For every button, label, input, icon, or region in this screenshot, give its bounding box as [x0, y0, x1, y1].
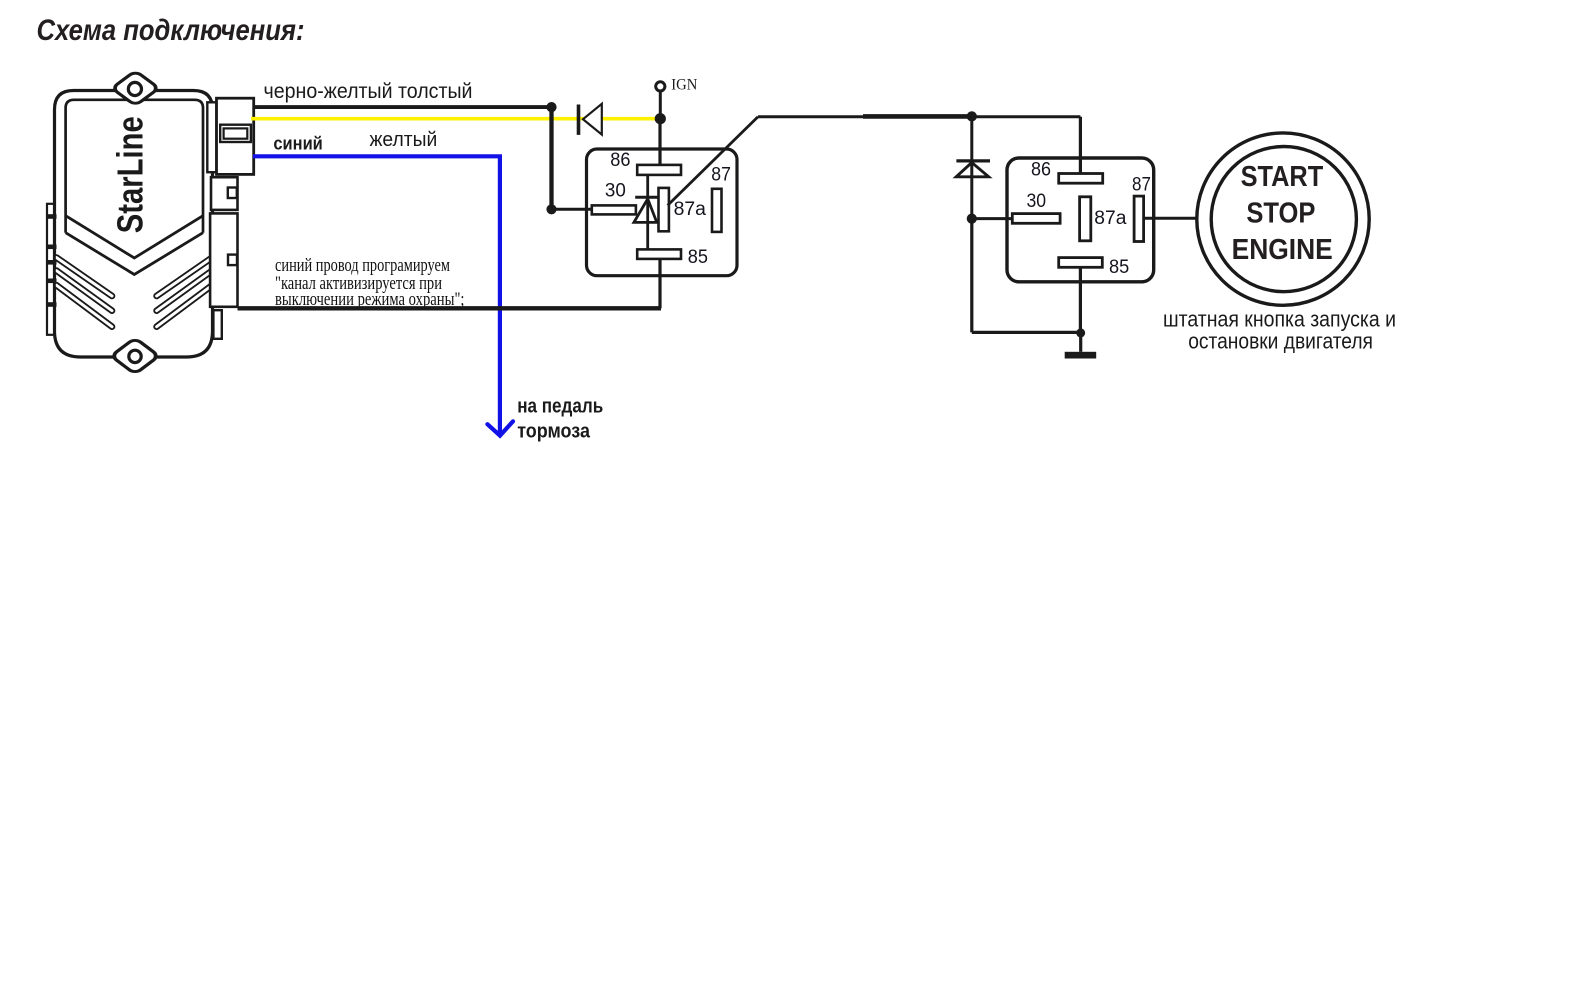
- case rib slots right: [157, 258, 213, 327]
- junction J3: [655, 113, 666, 124]
- case rib slots left: [56, 258, 112, 327]
- wire bottom to ground junction: [972, 331, 1081, 334]
- svg-text:30: 30: [605, 181, 626, 202]
- wire relay K2 pin 87 to button: [1144, 217, 1198, 220]
- wire relay K2 pin 85 down: [1079, 267, 1082, 332]
- tab strip separators: [46, 214, 57, 307]
- svg-text:IGN: IGN: [671, 77, 697, 94]
- diode D2 triangle: [956, 163, 989, 177]
- svg-text:Схема подключения:: Схема подключения:: [37, 14, 305, 47]
- junction J1: [546, 102, 556, 112]
- wire into relay K2 pin 86: [1079, 117, 1082, 174]
- wire black-yellow thick: [254, 105, 552, 109]
- connector X3 notch: [228, 255, 237, 266]
- wire to ground: [1079, 333, 1082, 352]
- relay K1 coil wire: [646, 175, 649, 250]
- wire J5 to relay K2 pin 30: [972, 217, 1013, 220]
- relay K2 box: [1007, 158, 1154, 282]
- connector X2 notch: [228, 188, 237, 199]
- blue arrow head: [487, 421, 513, 435]
- bottom small tab: [213, 310, 221, 339]
- relay K1 internal diode cathode: [635, 196, 659, 199]
- junction J6 ground: [1076, 328, 1085, 337]
- svg-text:87: 87: [1132, 174, 1151, 195]
- svg-text:на педаль: на педаль: [517, 395, 603, 417]
- relay K1 switch arm: [668, 117, 758, 206]
- svg-text:86: 86: [1031, 159, 1051, 180]
- wire top horizontal: [758, 115, 1080, 118]
- svg-text:остановки двигателя: остановки двигателя: [1188, 329, 1373, 354]
- wire relay K1 pin 85 down: [658, 259, 661, 308]
- wire yellow: [251, 117, 660, 121]
- wire J4 down to diode D2: [970, 116, 973, 218]
- connector X1 latch outer: [220, 125, 251, 142]
- svg-text:30: 30: [1027, 191, 1047, 212]
- svg-text:ENGINE: ENGINE: [1232, 234, 1333, 266]
- svg-text:StarLine: StarLine: [110, 116, 151, 233]
- svg-text:синий: синий: [273, 134, 322, 154]
- junction J4: [967, 111, 977, 121]
- relay K1 pin 85 bar: [637, 249, 681, 259]
- connector X1 top block: [217, 98, 254, 174]
- relay K1 pin 86 bar: [637, 165, 681, 175]
- svg-text:87: 87: [711, 165, 731, 186]
- relay K1 box: [587, 149, 738, 276]
- chevron V2: [66, 233, 203, 275]
- left side tab strip: [47, 204, 55, 335]
- wire blue: [253, 156, 500, 436]
- wire J2 to pin 30: [552, 208, 592, 211]
- connector X1 latch inner: [224, 128, 248, 138]
- diode D2 cathode bar: [956, 159, 990, 162]
- relay K2 pin 85 bar: [1059, 258, 1103, 268]
- body inner outline: [66, 100, 203, 233]
- svg-text:желтый: желтый: [370, 129, 438, 151]
- alarm unit U1 body: [55, 91, 213, 358]
- relay K1 internal diode triangle: [634, 199, 657, 223]
- connector X2 middle block: [211, 177, 238, 210]
- connector X3 lower block: [210, 213, 237, 306]
- button S1 inner circle: [1211, 147, 1356, 292]
- svg-text:STOP: STOP: [1246, 198, 1315, 230]
- relay K2 pin 30 bar: [1012, 214, 1060, 224]
- wire IGN down: [659, 91, 662, 119]
- svg-text:87a: 87a: [674, 199, 707, 220]
- wire J1 down: [549, 107, 553, 209]
- wire J5 down: [970, 219, 973, 333]
- svg-text:85: 85: [1109, 257, 1129, 278]
- diode D1 triangle: [583, 104, 602, 135]
- wire top horizontal thick overlay: [863, 114, 972, 119]
- svg-text:черно-желтый толстый: черно-желтый толстый: [264, 80, 473, 103]
- chevron V1: [66, 216, 203, 258]
- svg-text:85: 85: [688, 247, 708, 268]
- bottom mounting tab: [111, 338, 159, 374]
- bottom mounting hole: [129, 350, 141, 362]
- top mounting tab: [112, 71, 159, 106]
- svg-text:87a: 87a: [1094, 208, 1127, 229]
- wire bottom black: [238, 306, 662, 310]
- connector side strip: [207, 102, 216, 172]
- junction J5: [967, 214, 977, 224]
- svg-text:тормоза: тормоза: [517, 421, 591, 443]
- relay K1 pin 30 bar: [592, 205, 636, 214]
- relay K1 pin 87a bar: [659, 188, 669, 231]
- wire J3 to relay K1 pin 86: [658, 119, 661, 165]
- junction J2: [546, 204, 556, 214]
- ground symbol: [1065, 352, 1097, 359]
- diode D1 cathode bar: [577, 105, 581, 135]
- node IGN terminal: [656, 82, 665, 91]
- button S1 outer circle: [1197, 133, 1369, 305]
- svg-text:START: START: [1241, 161, 1324, 193]
- relay K2 pin 87 bar: [1134, 196, 1144, 241]
- relay K2 pin 87a bar: [1080, 197, 1091, 241]
- svg-text:86: 86: [610, 150, 630, 171]
- relay K1 pin 87 bar: [712, 189, 722, 232]
- relay K2 pin 86 bar: [1059, 174, 1103, 184]
- top mounting hole: [128, 82, 141, 95]
